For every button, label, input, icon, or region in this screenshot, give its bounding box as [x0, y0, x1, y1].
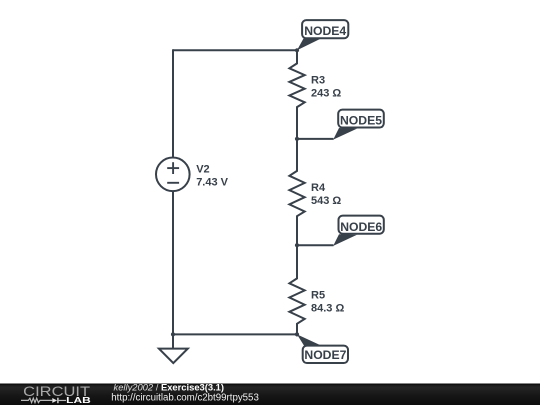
svg-text:R3: R3 [311, 75, 325, 87]
svg-text:243 Ω: 243 Ω [311, 88, 341, 100]
svg-text:7.43 V: 7.43 V [196, 176, 228, 188]
svg-text:NODE7: NODE7 [304, 348, 346, 362]
svg-text:R4: R4 [311, 182, 326, 194]
svg-text:V2: V2 [196, 163, 209, 175]
svg-text:543 Ω: 543 Ω [311, 195, 341, 207]
svg-text:LAB: LAB [66, 395, 91, 405]
svg-text:NODE6: NODE6 [340, 220, 382, 234]
svg-text:R5: R5 [311, 290, 325, 302]
svg-text:NODE5: NODE5 [340, 113, 382, 127]
svg-text:http://circuitlab.com/c2bt99rt: http://circuitlab.com/c2bt99rtpy553 [111, 393, 259, 404]
svg-text:kelly2002 / Exercise3(3.1): kelly2002 / Exercise3(3.1) [114, 382, 225, 393]
svg-text:NODE4: NODE4 [304, 24, 346, 38]
svg-text:84.3 Ω: 84.3 Ω [311, 303, 344, 315]
